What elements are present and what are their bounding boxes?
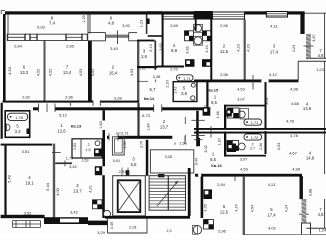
svg-text:4,24: 4,24 <box>285 205 289 212</box>
svg-text:1,84: 1,84 <box>146 123 150 130</box>
svg-text:2,7: 2,7 <box>250 146 255 150</box>
svg-text:2,70: 2,70 <box>170 66 179 71</box>
svg-text:12,5: 12,5 <box>220 49 229 54</box>
svg-text:19,1: 19,1 <box>25 181 34 186</box>
svg-text:1,83: 1,83 <box>73 143 77 150</box>
svg-text:13,7: 13,7 <box>160 125 169 130</box>
svg-text:4,52: 4,52 <box>90 68 95 77</box>
svg-text:3,02: 3,02 <box>204 145 208 152</box>
svg-text:2,69: 2,69 <box>170 23 179 28</box>
svg-text:14,8: 14,8 <box>306 156 315 161</box>
svg-text:3,62: 3,62 <box>185 46 189 53</box>
svg-text:1,5: 1,5 <box>85 148 90 152</box>
svg-text:2,3: 2,3 <box>167 229 172 233</box>
svg-text:4,8: 4,8 <box>318 53 324 58</box>
svg-text:1,53: 1,53 <box>82 158 89 162</box>
svg-text:3,29: 3,29 <box>97 230 106 235</box>
svg-text:4,53: 4,53 <box>78 68 83 77</box>
svg-text:3,42: 3,42 <box>70 210 79 215</box>
svg-text:4,23: 4,23 <box>292 45 296 52</box>
svg-text:3,52: 3,52 <box>24 211 33 216</box>
svg-text:5,8: 5,8 <box>131 162 137 167</box>
svg-text:2,95: 2,95 <box>66 44 75 49</box>
svg-text:3,88: 3,88 <box>308 189 312 196</box>
svg-text:3,39: 3,39 <box>114 96 123 101</box>
svg-text:8,5: 8,5 <box>210 157 216 162</box>
svg-text:1,23: 1,23 <box>140 20 144 27</box>
svg-text:4,13: 4,13 <box>268 182 277 187</box>
svg-text:2,48: 2,48 <box>153 74 162 79</box>
svg-text:1,71: 1,71 <box>183 76 191 81</box>
svg-text:h=2,71: h=2,71 <box>116 131 129 136</box>
svg-text:4,24: 4,24 <box>235 204 239 211</box>
svg-text:4,38: 4,38 <box>292 167 301 172</box>
svg-text:5,43: 5,43 <box>6 174 11 183</box>
svg-text:4,11: 4,11 <box>270 24 278 29</box>
svg-text:9,8: 9,8 <box>171 48 178 53</box>
svg-text:12,6: 12,6 <box>57 129 66 134</box>
svg-text:12,5: 12,5 <box>220 210 229 215</box>
svg-text:13,9: 13,9 <box>303 106 312 111</box>
svg-text:5,44: 5,44 <box>45 182 50 191</box>
svg-text:4,24: 4,24 <box>205 45 209 52</box>
svg-text:4,52: 4,52 <box>36 68 41 77</box>
svg-text:4,52: 4,52 <box>48 68 53 77</box>
svg-text:2,96: 2,96 <box>220 23 229 28</box>
svg-text:2,96: 2,96 <box>218 229 227 234</box>
svg-text:13,3: 13,3 <box>20 70 29 75</box>
svg-text:2,6: 2,6 <box>141 54 147 59</box>
svg-text:2,76: 2,76 <box>139 141 143 148</box>
svg-text:2,92: 2,92 <box>22 95 31 100</box>
svg-text:2,94: 2,94 <box>14 44 23 49</box>
svg-text:4,53: 4,53 <box>237 87 246 92</box>
svg-text:1,83: 1,83 <box>140 67 146 71</box>
svg-text:6,44: 6,44 <box>195 158 199 165</box>
svg-text:2,94: 2,94 <box>217 182 226 187</box>
svg-text:1,67: 1,67 <box>217 138 221 145</box>
svg-text:1,83: 1,83 <box>99 121 103 128</box>
svg-text:Кв.13: Кв.13 <box>71 124 82 129</box>
svg-text:4,54: 4,54 <box>7 66 12 75</box>
svg-text:≥: ≥ <box>174 142 176 146</box>
svg-text:3,07: 3,07 <box>240 157 249 162</box>
svg-text:3,3: 3,3 <box>15 129 21 134</box>
svg-text:3,25: 3,25 <box>165 154 174 159</box>
svg-text:13,4: 13,4 <box>63 70 72 75</box>
svg-text:4,68: 4,68 <box>291 101 300 106</box>
svg-text:5,12: 5,12 <box>59 113 68 118</box>
svg-text:17,4: 17,4 <box>267 213 276 218</box>
svg-text:1,36: 1,36 <box>259 143 263 150</box>
svg-text:3,51: 3,51 <box>22 149 31 154</box>
svg-text:4,38: 4,38 <box>290 87 299 92</box>
svg-text:5,93: 5,93 <box>37 25 46 30</box>
svg-text:2: 2 <box>87 143 89 147</box>
svg-text:1,68: 1,68 <box>179 142 186 146</box>
svg-text:4,53: 4,53 <box>129 68 134 77</box>
svg-text:4,00: 4,00 <box>55 187 60 196</box>
svg-text:4,54: 4,54 <box>251 205 255 212</box>
svg-text:2,96: 2,96 <box>220 72 229 77</box>
svg-text:3,03: 3,03 <box>277 143 281 150</box>
svg-text:4,23: 4,23 <box>247 44 251 51</box>
svg-text:3,8: 3,8 <box>181 91 187 96</box>
svg-text:6,73: 6,73 <box>142 113 151 118</box>
svg-text:4,26: 4,26 <box>204 204 208 211</box>
svg-text:17,4: 17,4 <box>270 50 279 55</box>
svg-text:1,79: 1,79 <box>66 157 73 161</box>
svg-text:2,51: 2,51 <box>119 169 128 174</box>
svg-text:1,50: 1,50 <box>123 142 127 149</box>
svg-text:4,8: 4,8 <box>108 21 115 26</box>
svg-text:2,91: 2,91 <box>129 224 138 229</box>
svg-text:1,25: 1,25 <box>82 15 86 22</box>
svg-text:Кв.16: Кв.16 <box>211 163 222 168</box>
svg-text:1,23: 1,23 <box>316 67 325 72</box>
svg-text:1,72: 1,72 <box>251 135 259 140</box>
svg-text:3,87: 3,87 <box>312 34 316 41</box>
svg-text:4,53: 4,53 <box>240 167 249 172</box>
svg-text:7,4: 7,4 <box>49 21 56 26</box>
svg-text:3,49: 3,49 <box>110 222 114 229</box>
svg-text:2,42: 2,42 <box>174 87 178 94</box>
svg-text:3,07: 3,07 <box>237 97 246 102</box>
svg-text:4,21: 4,21 <box>89 185 93 192</box>
svg-text:2,13: 2,13 <box>149 44 153 51</box>
svg-text:1,78: 1,78 <box>15 115 23 120</box>
svg-text:Кв.15: Кв.15 <box>208 88 219 93</box>
svg-text:4,8: 4,8 <box>318 212 324 217</box>
svg-text:4,67: 4,67 <box>289 150 298 155</box>
svg-text:4,12: 4,12 <box>269 72 278 77</box>
svg-text:3,40: 3,40 <box>110 46 119 51</box>
svg-text:1,66: 1,66 <box>216 111 220 118</box>
svg-text:4,78: 4,78 <box>290 133 299 138</box>
svg-text:4,78: 4,78 <box>286 119 295 124</box>
svg-text:13,7: 13,7 <box>73 189 82 194</box>
svg-text:15,4: 15,4 <box>109 71 118 76</box>
svg-text:Кв.14: Кв.14 <box>144 96 155 101</box>
svg-text:3,92: 3,92 <box>122 23 131 28</box>
svg-text:4,23: 4,23 <box>237 44 241 51</box>
svg-text:5,7: 5,7 <box>150 87 157 92</box>
svg-text:4,02: 4,02 <box>268 226 277 231</box>
svg-text:0,91: 0,91 <box>113 159 120 163</box>
svg-text:1,71: 1,71 <box>251 120 259 125</box>
svg-text:8,5: 8,5 <box>211 100 217 105</box>
svg-text:2,20: 2,20 <box>165 80 169 87</box>
svg-text:2,96: 2,96 <box>65 95 74 100</box>
svg-text:3,42: 3,42 <box>69 164 78 169</box>
